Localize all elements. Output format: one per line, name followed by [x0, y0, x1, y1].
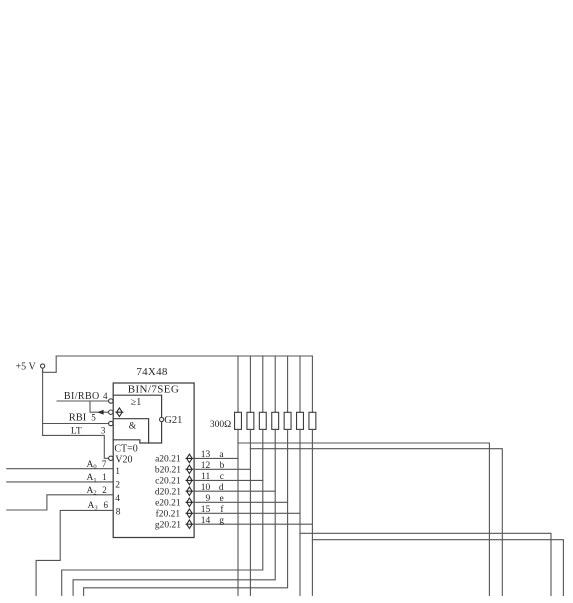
svg-text:d: d: [219, 483, 224, 493]
svg-text:b: b: [220, 461, 225, 471]
wire V20 link: [43, 435, 109, 458]
wire input A0: [7, 468, 113, 470]
wire output a (pin 13): [194, 457, 238, 459]
wire +5V drop to LT and V20: [42, 368, 44, 435]
polarity diamond output g: [186, 520, 193, 529]
wire segment-g vertical above resistor: [311, 356, 313, 412]
wire segment-c vertical above resistor: [262, 356, 264, 412]
wire +5V jog from terminal to resistor rail: [43, 356, 57, 372]
svg-text:f20.21: f20.21: [156, 509, 181, 520]
svg-text:d20.21: d20.21: [155, 487, 181, 497]
wire +5V rail feeding resistors: [56, 355, 312, 357]
resistor R1 300ohm: [235, 412, 242, 429]
wire segment-f right branch: [300, 533, 551, 595]
wire segment-b right branch: [250, 449, 502, 596]
svg-text:8: 8: [116, 508, 121, 518]
wire segment-c down then left to bottom: [62, 429, 263, 595]
svg-text:V20: V20: [115, 455, 132, 466]
wire segment-f vertical below resistor to bottom: [299, 429, 301, 595]
svg-text:74X48: 74X48: [136, 366, 167, 378]
polarity diamond output d: [186, 487, 193, 496]
wire RBI link from BI/RBO node: [90, 401, 108, 412]
wire segment-a right branch: [238, 443, 489, 596]
svg-text:&: &: [129, 421, 137, 431]
svg-text:g: g: [219, 516, 224, 526]
svg-text:4: 4: [103, 391, 108, 401]
svg-text:BI/RBO: BI/RBO: [64, 391, 100, 402]
resistor R2 300ohm: [247, 412, 254, 429]
svg-text:b20.21: b20.21: [155, 466, 181, 476]
svg-text:g20.21: g20.21: [155, 520, 181, 530]
wire LT input branch to pin 3: [43, 423, 109, 425]
svg-text:G21: G21: [164, 415, 182, 426]
resistor R4 300ohm: [272, 412, 279, 429]
wire segment-b vertical above resistor: [249, 356, 251, 412]
wire input A2: [7, 495, 113, 510]
svg-text:6: 6: [104, 500, 109, 510]
OR-gate block outline (>=1): [113, 395, 161, 443]
wire segment-d vertical above resistor: [274, 356, 276, 412]
svg-text:1: 1: [115, 467, 120, 477]
svg-text:11: 11: [201, 472, 210, 482]
AND-gate block outline (&): [113, 419, 148, 443]
wire output b (pin 12): [194, 468, 250, 470]
wire output g (pin 14): [194, 523, 312, 525]
svg-text:1: 1: [102, 472, 107, 482]
svg-text:A1: A1: [87, 473, 97, 484]
svg-text:7: 7: [102, 459, 107, 469]
wire output d (pin 10): [194, 490, 275, 492]
wire segment-b vertical below resistor to bottom: [249, 429, 251, 595]
svg-text:2: 2: [115, 481, 120, 491]
svg-text:2: 2: [102, 485, 107, 495]
svg-text:e20.21: e20.21: [155, 499, 181, 509]
svg-text:15: 15: [201, 505, 211, 515]
wire output f (pin 15): [194, 512, 300, 514]
svg-text:3: 3: [101, 425, 106, 435]
wire segment-d down then left to bottom: [73, 429, 275, 595]
svg-text:c: c: [220, 472, 224, 482]
wire segment-e down then left to bottom: [84, 429, 288, 595]
polarity diamond output a: [186, 454, 193, 463]
polarity diamond RBI: [116, 408, 123, 417]
svg-text:+5 V: +5 V: [16, 362, 37, 373]
svg-text:A3: A3: [88, 501, 98, 512]
wire input A3 from below: [36, 510, 113, 595]
wire output e (pin 9): [194, 501, 288, 503]
polarity diamond output f: [186, 509, 193, 518]
polarity diamond output b: [186, 465, 193, 474]
wire output c (pin 11): [194, 479, 263, 481]
wire segment-a vertical above resistor: [237, 356, 239, 412]
svg-text:A2: A2: [87, 486, 97, 497]
svg-text:e: e: [219, 494, 223, 504]
op-amp U1 74X48 outline box: [113, 383, 194, 538]
resistor R3 300ohm: [259, 412, 266, 429]
svg-text:300Ω: 300Ω: [210, 420, 231, 430]
node +5V terminal circle: [41, 364, 45, 368]
svg-text:CT=0: CT=0: [114, 444, 137, 455]
wire BI/RBO stub to pin 4: [57, 400, 108, 402]
svg-text:4: 4: [115, 494, 120, 504]
svg-text:LT: LT: [71, 426, 82, 436]
wire segment-g vertical below resistor to bottom: [311, 429, 313, 595]
svg-text:BIN/7SEG: BIN/7SEG: [128, 384, 179, 396]
pin 5 RBI circle: [109, 410, 113, 414]
svg-text:14: 14: [201, 516, 211, 526]
output G21 circle: [160, 417, 164, 421]
resistor R5 300ohm: [284, 412, 291, 429]
svg-text:10: 10: [201, 483, 211, 493]
svg-text:A0: A0: [87, 460, 97, 471]
svg-text:≥1: ≥1: [131, 397, 142, 408]
polarity diamond output e: [186, 498, 193, 507]
svg-text:13: 13: [201, 450, 211, 460]
svg-text:9: 9: [206, 494, 211, 504]
svg-text:RBI: RBI: [69, 413, 87, 424]
wire segment-a vertical below resistor to bottom: [237, 429, 239, 595]
resistor R6 300ohm: [297, 412, 304, 429]
polarity diamond output c: [186, 476, 193, 485]
pin 4 BI/RBO circle: [109, 399, 113, 403]
arrowhead on RBI wire: [97, 410, 103, 415]
wire segment-f vertical above resistor: [299, 356, 301, 412]
svg-text:5: 5: [91, 413, 96, 423]
pin 3 LT circle: [109, 421, 113, 425]
pin V20 circle: [109, 456, 113, 460]
wire segment-e vertical above resistor: [287, 356, 289, 412]
svg-text:c20.21: c20.21: [155, 477, 181, 487]
resistor R7 300ohm: [309, 412, 316, 429]
svg-text:12: 12: [201, 461, 211, 471]
svg-text:a20.21: a20.21: [155, 455, 181, 465]
wire segment-g right branch: [312, 540, 563, 596]
wire input A1: [7, 481, 113, 483]
